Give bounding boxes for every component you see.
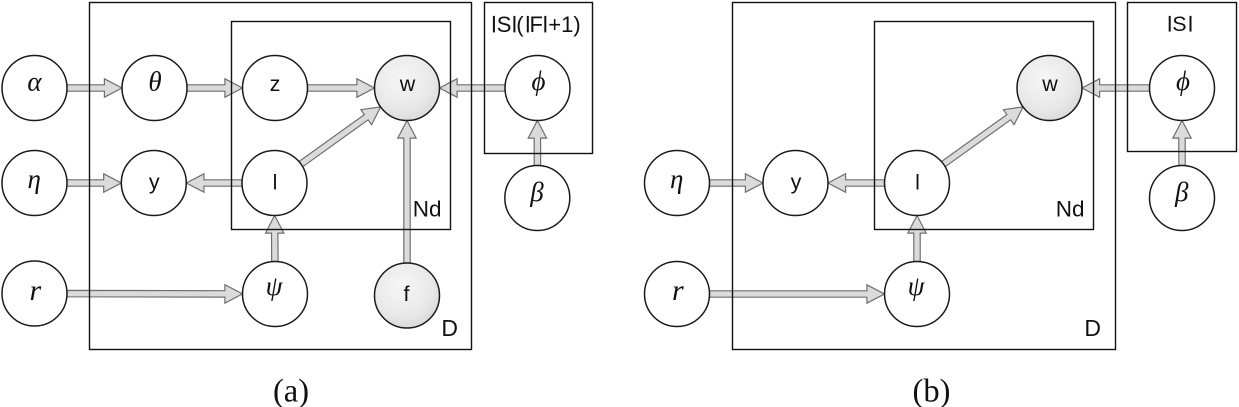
wire beta->phi bbox=[528, 121, 546, 166]
svg-text:+1): +1) bbox=[548, 12, 580, 37]
node phi (b) bbox=[1150, 56, 1215, 121]
svg-text:Nd: Nd bbox=[413, 197, 442, 222]
node beta (a) bbox=[505, 166, 570, 231]
svg-text:w: w bbox=[1041, 72, 1058, 96]
wire psi->l (b) bbox=[908, 216, 926, 262]
svg-text:Nd: Nd bbox=[1056, 197, 1085, 222]
node beta (b) bbox=[1150, 166, 1215, 231]
node gamma (b) bbox=[645, 262, 710, 327]
wire f->w bbox=[398, 121, 416, 264]
node eta (a) bbox=[2, 151, 67, 216]
svg-text:r: r bbox=[672, 274, 684, 307]
svg-text:r: r bbox=[29, 274, 41, 307]
plate label |S|(|F|+1) bbox=[493, 16, 495, 33]
svg-text:l: l bbox=[915, 170, 920, 194]
svg-text:z: z bbox=[270, 72, 281, 96]
svg-text:(b): (b) bbox=[913, 374, 951, 407]
node y (a) bbox=[121, 151, 186, 216]
wire phi->w (b) bbox=[1082, 79, 1150, 97]
svg-text:ϕ: ϕ bbox=[532, 66, 546, 96]
node l (b) bbox=[885, 151, 950, 216]
svg-text:S: S bbox=[1172, 12, 1186, 36]
svg-text:η: η bbox=[27, 164, 40, 194]
svg-text:α: α bbox=[27, 67, 42, 97]
wire theta->z bbox=[187, 79, 243, 97]
node gamma (a) bbox=[2, 261, 67, 326]
wire eta->y (b) bbox=[710, 174, 764, 192]
node eta (b) bbox=[645, 151, 710, 216]
svg-text:S: S bbox=[497, 12, 512, 37]
svg-text:F: F bbox=[530, 12, 543, 37]
node f bbox=[375, 263, 440, 328]
svg-text:β: β bbox=[1174, 177, 1189, 207]
plate Nd (a) bbox=[232, 22, 451, 230]
node psi (a) bbox=[243, 262, 308, 327]
svg-text:y: y bbox=[149, 170, 160, 194]
plate D (a) bbox=[90, 3, 472, 350]
svg-text:D: D bbox=[1084, 315, 1101, 341]
node phi (a) bbox=[505, 56, 570, 121]
plate label |S| bbox=[1169, 16, 1171, 32]
wire z->w bbox=[308, 79, 375, 97]
wire eta->y bbox=[67, 174, 121, 192]
plate |S|(|F|+1) (a) bbox=[485, 3, 593, 154]
wire l->y bbox=[186, 174, 242, 192]
plate D (b) bbox=[733, 3, 1116, 350]
svg-text:w: w bbox=[399, 72, 416, 96]
svg-text:f: f bbox=[404, 282, 410, 306]
wire beta->phi (b) bbox=[1173, 121, 1191, 166]
plate Nd (b) bbox=[875, 22, 1094, 230]
node theta bbox=[122, 56, 187, 121]
wire l->w bbox=[299, 107, 381, 167]
svg-text:D: D bbox=[441, 315, 458, 341]
svg-text:(: ( bbox=[516, 12, 524, 37]
wire l->w (b) bbox=[942, 107, 1024, 167]
node y (b) bbox=[763, 151, 828, 216]
node w (b) bbox=[1017, 56, 1082, 121]
wire gamma->psi bbox=[67, 285, 243, 303]
wire gamma->psi (b) bbox=[710, 285, 885, 303]
svg-text:η: η bbox=[670, 164, 683, 194]
svg-text:ψ: ψ bbox=[266, 271, 284, 301]
node alpha bbox=[2, 56, 67, 121]
svg-text:(a): (a) bbox=[273, 374, 309, 407]
svg-text:ϕ: ϕ bbox=[1176, 66, 1190, 96]
svg-text:y: y bbox=[791, 170, 802, 194]
wire l->y (b) bbox=[828, 174, 885, 192]
svg-text:β: β bbox=[529, 177, 544, 207]
node l (a) bbox=[242, 151, 307, 216]
node psi (b) bbox=[885, 262, 950, 327]
svg-text:ψ: ψ bbox=[908, 271, 926, 301]
wire alpha->theta bbox=[67, 79, 122, 97]
node w (a) bbox=[375, 56, 440, 121]
svg-text:θ: θ bbox=[148, 67, 161, 97]
wire psi->l bbox=[266, 216, 284, 262]
plate |S| (b) bbox=[1128, 3, 1237, 152]
wire phi->w bbox=[440, 79, 506, 97]
svg-text:l: l bbox=[273, 170, 278, 194]
node z bbox=[243, 56, 308, 121]
